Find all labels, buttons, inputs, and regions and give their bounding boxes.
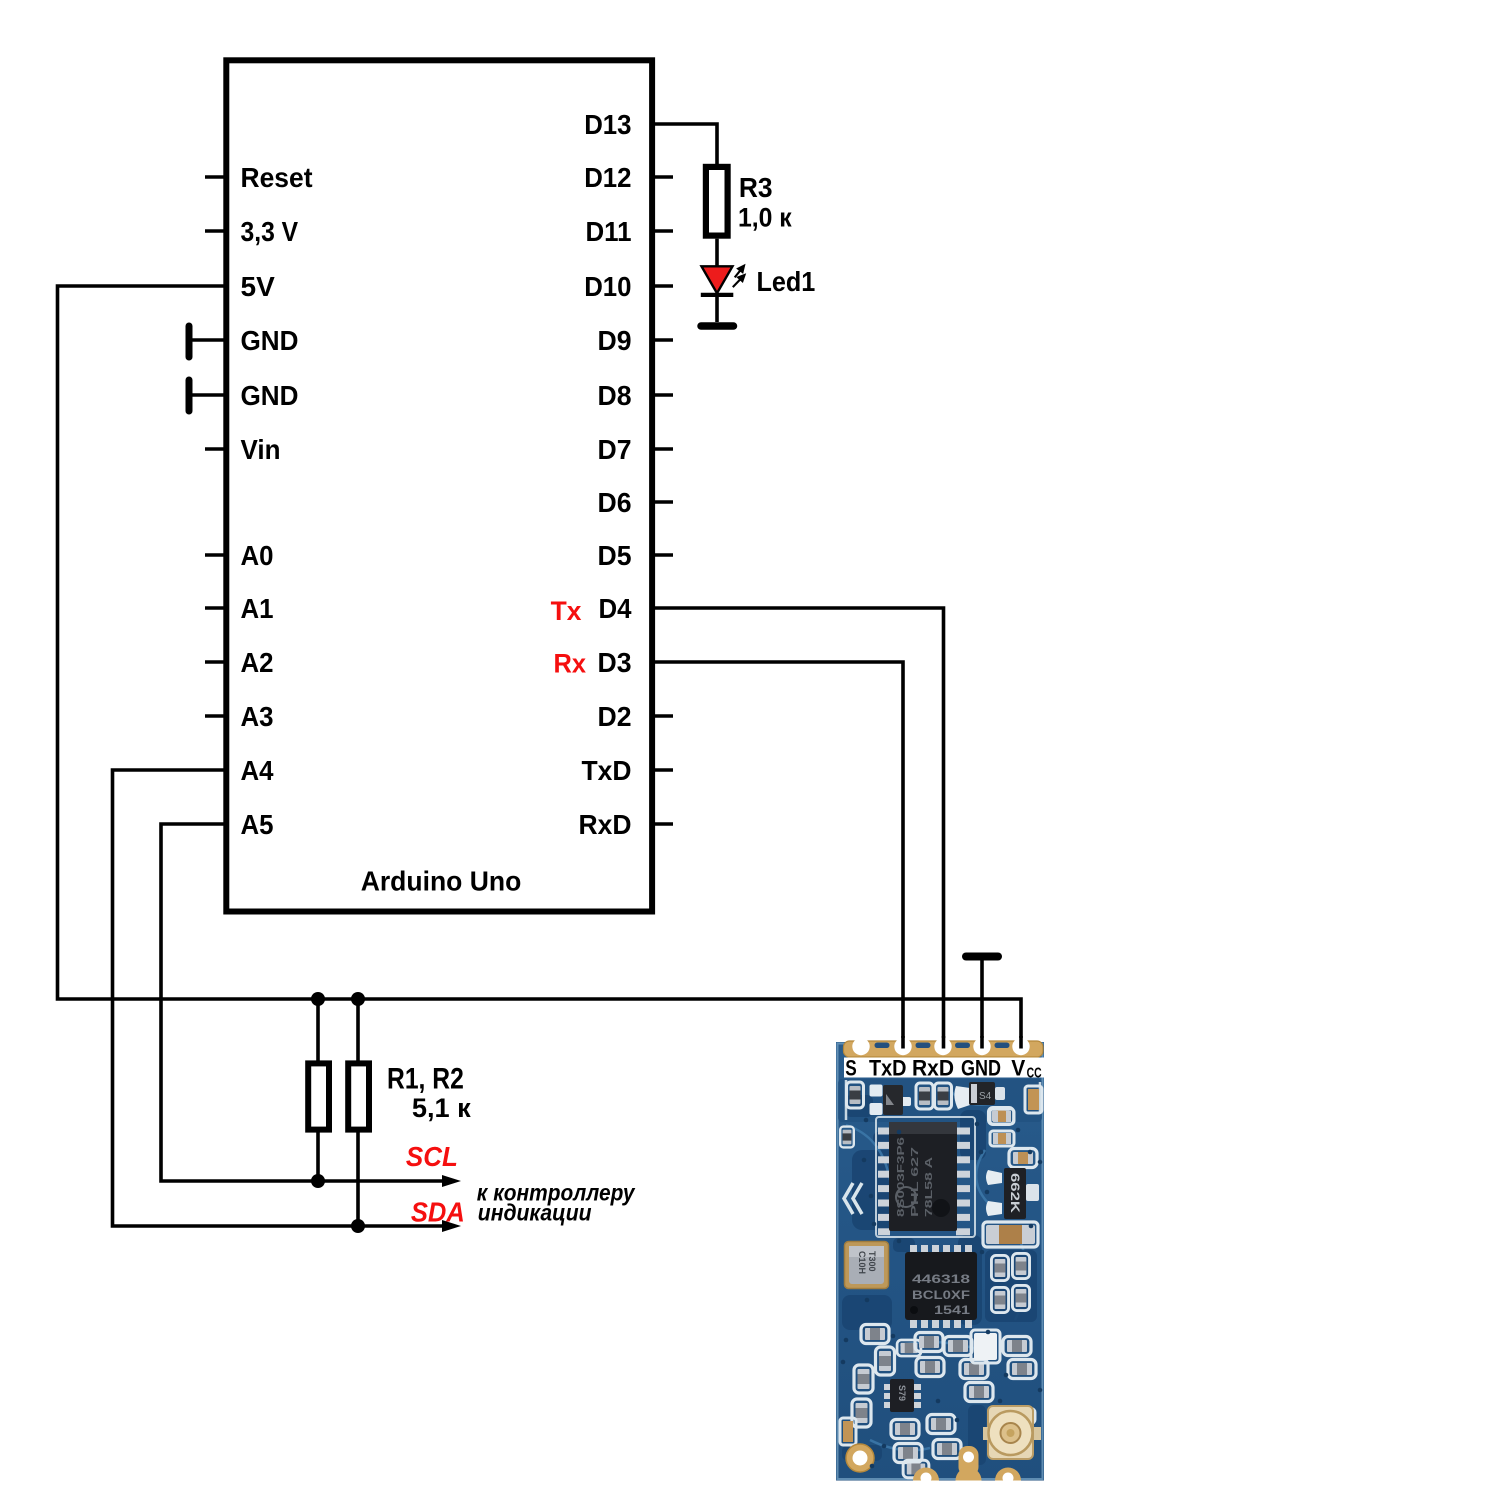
svg-text:S: S <box>845 1056 857 1081</box>
svg-text:R1, R2: R1, R2 <box>387 1063 464 1096</box>
svg-text:BCL0XF: BCL0XF <box>912 1290 970 1302</box>
svg-text:Tx: Tx <box>551 596 582 626</box>
svg-text:D2: D2 <box>598 701 632 732</box>
svg-text:D9: D9 <box>598 325 632 356</box>
svg-text:D10: D10 <box>584 271 631 302</box>
svg-text:D7: D7 <box>598 434 632 465</box>
svg-text:1,0 к: 1,0 к <box>738 203 792 233</box>
svg-text:D13: D13 <box>584 109 631 140</box>
svg-text:Led1: Led1 <box>757 266 816 297</box>
svg-text:A1: A1 <box>241 593 274 624</box>
svg-text:SDA: SDA <box>411 1197 465 1228</box>
svg-text:S79: S79 <box>897 1385 907 1401</box>
svg-text:A2: A2 <box>241 647 274 678</box>
svg-text:A4: A4 <box>241 755 274 786</box>
svg-text:D11: D11 <box>586 216 632 247</box>
svg-text:5,1 к: 5,1 к <box>412 1093 471 1123</box>
svg-text:662K: 662K <box>1008 1173 1022 1213</box>
svg-text:A3: A3 <box>241 701 274 732</box>
svg-text:D8: D8 <box>598 380 632 411</box>
svg-text:D4: D4 <box>599 593 632 624</box>
svg-text:Arduino Uno: Arduino Uno <box>361 865 522 896</box>
svg-text:Reset: Reset <box>241 162 313 193</box>
svg-text:индикации: индикации <box>478 1200 592 1226</box>
svg-text:RxD: RxD <box>579 809 632 840</box>
svg-text:C10H: C10H <box>857 1251 867 1274</box>
svg-text:GND: GND <box>241 380 299 411</box>
svg-text:TxD: TxD <box>582 755 632 786</box>
svg-text:T300: T300 <box>867 1251 877 1272</box>
svg-text:A0: A0 <box>241 540 274 571</box>
svg-text:GND: GND <box>241 325 299 356</box>
svg-text:GND: GND <box>961 1056 1001 1081</box>
svg-text:1541: 1541 <box>934 1305 971 1317</box>
svg-text:R3: R3 <box>739 172 773 203</box>
svg-text:446318: 446318 <box>912 1274 971 1286</box>
svg-text:D12: D12 <box>584 162 631 193</box>
svg-text:RxD: RxD <box>912 1056 954 1081</box>
svg-text:S4: S4 <box>979 1091 992 1102</box>
svg-text:D3: D3 <box>598 647 632 678</box>
svg-text:D6: D6 <box>598 487 632 518</box>
svg-text:78L58 A: 78L58 A <box>924 1157 935 1217</box>
svg-text:3,3 V: 3,3 V <box>241 216 299 247</box>
svg-text:5V: 5V <box>241 271 276 302</box>
svg-text:SCL: SCL <box>406 1141 458 1172</box>
svg-text:CC: CC <box>1027 1065 1042 1082</box>
svg-text:D5: D5 <box>598 540 632 571</box>
svg-text:Vin: Vin <box>241 434 281 465</box>
svg-text:A5: A5 <box>241 809 274 840</box>
svg-text:TxD: TxD <box>869 1056 907 1081</box>
svg-text:Rx: Rx <box>554 649 587 679</box>
svg-text:V: V <box>1011 1056 1025 1081</box>
